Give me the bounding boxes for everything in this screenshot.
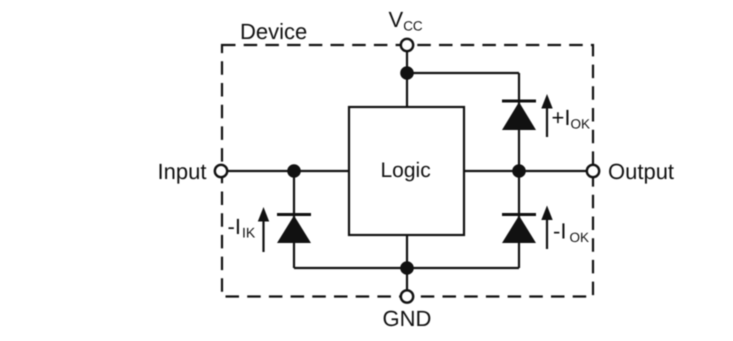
terminal: Output pin	[587, 165, 599, 177]
wire: Vcc node to upper clamp diode (horizontal)	[407, 72, 519, 74]
svg-text:-IOK: -IOK	[553, 219, 589, 246]
terminal: GND pin	[401, 290, 413, 302]
svg-text:Logic: Logic	[381, 159, 431, 182]
wire: Vcc vertical into Logic	[406, 45, 408, 107]
wire: upper clamp diode branch vertical	[518, 73, 520, 171]
svg-text:Device: Device	[240, 19, 307, 44]
svg-text:GND: GND	[383, 306, 432, 331]
arrow: -IIK current direction	[258, 207, 269, 252]
diode D2 (-IIK clamp, GND to input)	[277, 215, 311, 244]
wire: Input to Logic	[221, 170, 349, 172]
op-amp-box: Logic block U1	[349, 107, 464, 235]
arrow: -IOK current direction	[541, 206, 552, 250]
svg-text:-IIK: -IIK	[228, 214, 256, 241]
diode D3 (-IOK clamp, GND to output)	[502, 215, 536, 244]
wire: Logic to Output	[464, 170, 593, 172]
svg-text:VCC: VCC	[389, 7, 423, 34]
diode D1 (+IOK clamp, output to Vcc)	[502, 101, 536, 130]
device boundary (dashed box)	[222, 45, 593, 297]
svg-text:+IOK: +IOK	[552, 105, 590, 132]
wire: bottom bus to GND (horizontal)	[294, 267, 519, 269]
svg-text:Output: Output	[608, 159, 674, 184]
terminal: Input pin	[215, 165, 227, 177]
wire: GND vertical from Logic	[406, 235, 408, 297]
svg-text:Input: Input	[158, 159, 207, 184]
junction: Vcc node	[400, 66, 414, 80]
junction: input node	[287, 164, 301, 178]
terminal: Vcc pin	[401, 39, 413, 51]
wire: input clamp diode branch vertical	[293, 171, 295, 268]
junction: GND node	[400, 261, 414, 275]
arrow: +IOK current direction	[541, 94, 552, 137]
wire: lower output clamp diode branch vertical	[518, 171, 520, 268]
junction: output node	[512, 164, 526, 178]
